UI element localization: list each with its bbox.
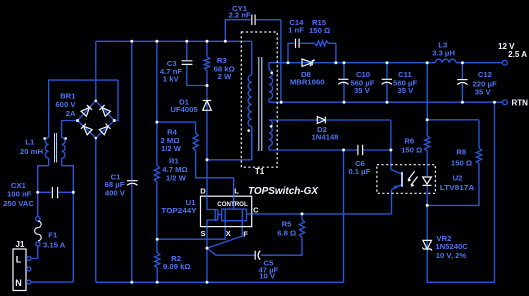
- wire line-sense vertical: [156, 41, 158, 282]
- resistor R6: [425, 136, 430, 151]
- wire primary ground rail: [96, 281, 344, 283]
- wire F pin to source: [207, 221, 242, 248]
- svg-text:1N4148: 1N4148: [312, 133, 340, 142]
- svg-text:9.09 kΩ: 9.09 kΩ: [163, 262, 191, 271]
- svg-text:35 V: 35 V: [475, 88, 492, 97]
- wire drain node: [207, 127, 252, 160]
- svg-text:1N5240C: 1N5240C: [435, 242, 468, 251]
- svg-text:LTV817A: LTV817A: [440, 183, 475, 192]
- wire bridge positive output: [95, 41, 97, 101]
- wire C10 leads: [343, 63, 345, 102]
- resistor R4: [193, 133, 198, 151]
- svg-text:U2: U2: [453, 174, 463, 183]
- wire CY1 secondary branch: [256, 20, 281, 103]
- wire bias winding to D2: [269, 119, 391, 121]
- wire C12 leads: [461, 63, 463, 102]
- wire bias return / C6 line: [269, 146, 391, 150]
- wire R6 branch: [426, 63, 428, 177]
- capacitor CY1: [252, 15, 255, 26]
- svg-text:S: S: [200, 229, 205, 238]
- svg-text:1/2 W: 1/2 W: [166, 174, 187, 183]
- wire L1 left to bridge AC2: [49, 80, 118, 137]
- zener VR2: [422, 240, 432, 250]
- wire D2 cathode drop: [390, 120, 392, 170]
- wire L1 right to bridge AC1: [62, 121, 78, 138]
- wire R5 leads: [261, 214, 302, 255]
- capacitor C1: [127, 180, 138, 182]
- fuse F1: [36, 217, 40, 221]
- svg-text:3.3 µH: 3.3 µH: [432, 48, 455, 57]
- svg-text:10 V, 2%: 10 V, 2%: [436, 251, 467, 260]
- capacitor C11: [382, 78, 392, 80]
- svg-text:MBR1060: MBR1060: [290, 78, 325, 87]
- svg-text:2.2 nF: 2.2 nF: [228, 10, 251, 19]
- svg-text:CONTROL: CONTROL: [217, 201, 248, 208]
- wire R3 leads: [206, 41, 208, 160]
- wire opto LED cathode / VR2: [427, 102, 494, 282]
- svg-text:T1: T1: [255, 167, 265, 176]
- capacitor C5: [254, 251, 256, 260]
- optocoupler U2: [377, 165, 436, 194]
- svg-text:L: L: [234, 186, 239, 195]
- resistor R15: [315, 41, 329, 46]
- resistor R5: [299, 220, 304, 238]
- svg-text:150 Ω: 150 Ω: [309, 26, 330, 35]
- capacitor C10: [338, 78, 348, 80]
- svg-text:R5: R5: [282, 220, 293, 229]
- junction dots: [130, 40, 133, 43]
- svg-text:150 Ω: 150 Ω: [451, 158, 472, 167]
- svg-text:250 VAC: 250 VAC: [3, 199, 34, 208]
- wire R8 branch: [427, 120, 479, 206]
- svg-text:150 Ω: 150 Ω: [401, 145, 422, 154]
- wire line from J1 via F1: [31, 158, 49, 258]
- svg-text:TOP244Y: TOP244Y: [161, 206, 196, 215]
- terminal RTN: [503, 100, 508, 105]
- svg-text:6.8 Ω: 6.8 Ω: [277, 228, 296, 237]
- svg-text:2.5 A: 2.5 A: [508, 50, 527, 59]
- diode D1: [203, 101, 212, 111]
- wire R4 top tap: [157, 122, 196, 133]
- svg-text:100 nF: 100 nF: [7, 189, 32, 198]
- resistor R8: [476, 148, 481, 164]
- wire secondary winding top lead: [268, 63, 270, 70]
- svg-text:RTN: RTN: [512, 98, 529, 107]
- wire C5 to source node: [207, 248, 255, 255]
- wire snubber: [288, 43, 336, 62]
- wire control pin to opto emitter: [252, 190, 392, 214]
- wire C3 branch: [187, 41, 207, 85]
- IC U1 TOP244Y: [201, 196, 252, 226]
- wire neutral from J1: [31, 158, 73, 282]
- wire S pin: [206, 227, 208, 283]
- resistor R2: [155, 253, 160, 269]
- svg-text:F: F: [243, 229, 248, 238]
- svg-text:2 W: 2 W: [218, 72, 232, 81]
- svg-text:C12: C12: [478, 70, 492, 79]
- svg-text:1 nF: 1 nF: [288, 25, 304, 34]
- wire CX1 leads: [38, 191, 74, 193]
- svg-text:20 mH: 20 mH: [20, 147, 44, 156]
- svg-text:35 V: 35 V: [397, 86, 414, 95]
- inductor L3: [435, 59, 456, 62]
- svg-text:D: D: [200, 187, 206, 196]
- wire C1 branch: [131, 41, 133, 282]
- svg-text:UF4005: UF4005: [170, 105, 198, 114]
- svg-text:2A: 2A: [66, 109, 76, 118]
- wire D pin: [206, 160, 208, 196]
- wire bridge negative output: [95, 138, 97, 282]
- svg-text:10 V: 10 V: [259, 272, 276, 281]
- svg-text:C: C: [253, 206, 259, 215]
- svg-text:1 kV: 1 kV: [163, 75, 180, 84]
- svg-text:R1: R1: [169, 156, 180, 165]
- svg-text:L1: L1: [25, 138, 35, 147]
- svg-text:N: N: [15, 278, 22, 288]
- wire R4 bottom to L pin: [196, 151, 234, 210]
- svg-text:R8: R8: [456, 147, 467, 156]
- wire C6 ground riser: [343, 150, 345, 282]
- wire C11 leads: [386, 63, 388, 102]
- wire secondary return rail: [269, 99, 502, 102]
- terminal 12V: [503, 60, 508, 65]
- svg-text:600 V: 600 V: [55, 100, 76, 109]
- svg-text:3.15 A: 3.15 A: [43, 241, 66, 250]
- diode D8: [302, 59, 314, 66]
- capacitor C14: [296, 39, 300, 48]
- svg-text:X: X: [226, 229, 231, 238]
- svg-text:R6: R6: [404, 137, 414, 146]
- capacitor C6: [358, 145, 363, 156]
- diode D2: [317, 117, 325, 124]
- capacitor C3: [182, 61, 193, 65]
- wire CY1 primary branch: [225, 20, 250, 42]
- wire X pin to sense divider: [157, 221, 225, 240]
- svg-text:F1: F1: [48, 230, 58, 239]
- wire secondary output: [269, 62, 502, 64]
- choke L1: [45, 138, 48, 159]
- connector J1: [13, 249, 26, 291]
- svg-text:1/2 W: 1/2 W: [161, 144, 182, 153]
- svg-text:TOPSwitch-GX: TOPSwitch-GX: [248, 185, 319, 197]
- bridge rectifier BR1: [78, 101, 115, 138]
- capacitor CX1: [52, 187, 57, 198]
- svg-text:0.1 µF: 0.1 µF: [348, 167, 370, 176]
- svg-text:35 V: 35 V: [354, 86, 371, 95]
- transformer T1: [241, 32, 277, 167]
- wire DC+ top rail: [96, 40, 252, 42]
- capacitor C12: [457, 79, 467, 81]
- svg-text:J1: J1: [16, 240, 25, 249]
- resistor R1: [154, 166, 159, 183]
- wire primary winding top: [251, 41, 253, 75]
- svg-text:400 V: 400 V: [105, 189, 126, 198]
- resistor R3: [204, 57, 209, 71]
- svg-text:L: L: [16, 255, 22, 265]
